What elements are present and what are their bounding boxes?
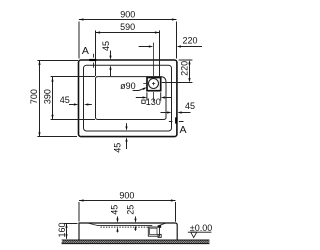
drain fitting dark block — [158, 225, 162, 228]
svg-text:45: 45 — [101, 41, 111, 51]
dim 45 right lines — [161, 112, 191, 114]
dim 700 ext lines — [37, 61, 78, 137]
dim 45 bottom lines — [126, 123, 128, 149]
svg-text:160: 160 — [57, 222, 67, 237]
svg-text:45: 45 — [185, 101, 195, 111]
labels section view — [57, 191, 136, 238]
svg-text:ø90: ø90 — [120, 81, 136, 91]
tray inner wall slope left — [88, 223, 98, 225]
basin floor rect — [96, 77, 167, 120]
level mark ±0.00 — [188, 223, 212, 237]
svg-text:130: 130 — [146, 97, 161, 107]
tray inner wall slope right — [159, 223, 166, 225]
section dim 25 lines — [135, 217, 137, 231]
dim 900 ext lines — [79, 22, 177, 59]
900 arrows — [79, 18, 84, 20]
svg-text:700: 700 — [29, 89, 39, 104]
45 bottom arrows — [125, 126, 127, 130]
svg-text:±0.00: ±0.00 — [190, 223, 212, 233]
dim 590 line — [96, 32, 160, 34]
svg-text:25: 25 — [125, 205, 135, 215]
section mark top: thick bar — [89, 59, 96, 61]
level underline — [188, 231, 212, 233]
130 arrows — [143, 96, 147, 98]
Ø90 leader — [133, 88, 146, 91]
ground hatch band — [60, 240, 213, 245]
label 130 square symbol — [142, 100, 145, 103]
drain trap foot — [158, 234, 161, 237]
outer tray rect — [79, 60, 177, 137]
section cut marks — [89, 54, 183, 124]
level triangle — [191, 232, 197, 237]
Ø90 leader arrowhead — [143, 87, 147, 90]
dim 45 top lines — [110, 51, 112, 77]
45 top arrows — [109, 56, 111, 60]
section 45 arrows — [116, 219, 118, 223]
dim 590 ext lines — [96, 30, 160, 77]
section mark bottom-right: thick bar — [175, 117, 177, 123]
dim 45 left lines — [69, 104, 92, 106]
section 160 arrows — [65, 223, 67, 228]
dim 700 line — [39, 60, 41, 137]
dim 220 top lines — [139, 46, 202, 48]
svg-text:590: 590 — [120, 22, 135, 32]
drain trap box — [148, 227, 159, 236]
arrowheads section view — [65, 199, 175, 238]
drain horizontal centerline — [143, 83, 155, 85]
svg-text:45: 45 — [113, 143, 123, 153]
tray floor line — [97, 224, 152, 226]
dim 130 lines — [136, 97, 171, 99]
45 right arrows — [167, 111, 171, 113]
section dim 900 line — [79, 200, 176, 202]
section 900 arrows — [79, 199, 84, 201]
tray profile outline — [79, 223, 177, 241]
drain circle Ø90 — [149, 79, 159, 89]
220 right arrows — [188, 60, 190, 65]
svg-text:390: 390 — [42, 89, 52, 104]
hatch band top line — [62, 239, 210, 241]
section 25 arrows — [134, 219, 136, 223]
700 arrows — [38, 60, 40, 65]
svg-text:A: A — [82, 45, 89, 57]
section dim 160 ext line — [64, 223, 78, 225]
dim 220 right line — [189, 62, 191, 81]
arrowheads top view — [38, 18, 190, 141]
hatch band bottom line — [62, 243, 210, 245]
tray floor anti-slip dotted line — [101, 226, 151, 228]
section dim 45 lines — [117, 217, 119, 233]
dim 390 line — [52, 77, 54, 119]
dim 220 right ext lines — [162, 60, 193, 83]
section mark bottom-right: dashes — [169, 121, 184, 123]
section dim 160 line — [66, 223, 68, 239]
drain square 130x130 — [147, 78, 161, 91]
svg-text:220: 220 — [180, 61, 190, 76]
section dim 900 ext lines — [79, 202, 176, 222]
rim rect — [84, 65, 172, 131]
svg-text:900: 900 — [119, 191, 134, 201]
svg-text:220: 220 — [182, 36, 197, 46]
svg-text:45: 45 — [109, 205, 119, 215]
svg-text:A: A — [179, 124, 186, 136]
390 arrows — [51, 77, 53, 82]
590 arrows — [96, 31, 101, 33]
dim 900 line — [79, 19, 177, 21]
drain vertical centerline — [153, 43, 155, 102]
dim 130 ext lines — [147, 92, 161, 100]
45 left arrows — [74, 103, 78, 105]
svg-text:45: 45 — [60, 95, 70, 105]
section mark top: dashes — [93, 54, 95, 68]
svg-text:900: 900 — [120, 9, 135, 19]
dim 390 ext lines — [51, 77, 95, 120]
220 top arrows — [149, 45, 153, 47]
drain trap inner — [150, 228, 157, 234]
labels top view — [29, 9, 198, 152]
